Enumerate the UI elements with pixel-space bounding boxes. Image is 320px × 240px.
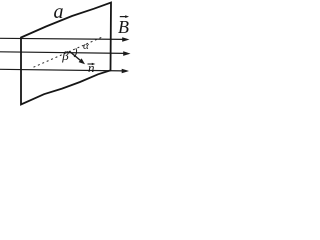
svg-text:B: B xyxy=(118,17,129,37)
label B with vector arrow xyxy=(118,15,129,37)
field line B1 (top) xyxy=(0,37,130,42)
angle arc at vertex xyxy=(74,48,77,57)
field line B2 (middle) xyxy=(0,51,131,56)
svg-text:a: a xyxy=(54,1,64,23)
svg-text:β: β xyxy=(61,48,69,63)
dashed line (plane trace through frame centre) xyxy=(34,37,104,67)
svg-text:α: α xyxy=(83,40,89,52)
normal vector n (arrow) xyxy=(70,51,86,64)
svg-text:n: n xyxy=(88,60,95,75)
label n with vector arrow xyxy=(88,60,96,75)
wire frame (parallelogram loop, side a) xyxy=(21,3,111,105)
field line B3 (bottom) xyxy=(0,69,129,74)
